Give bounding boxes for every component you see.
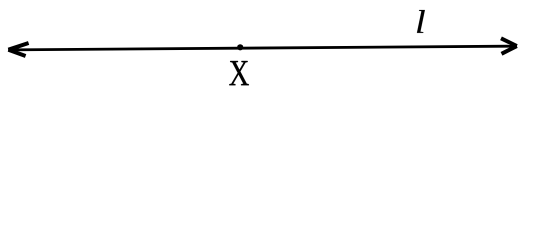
node arrowhead-left [8,43,28,56]
node X (point dot) [237,44,243,50]
node arrowhead-right [501,38,517,54]
node label X [229,61,248,85]
node label l (line name) [417,10,425,33]
wire [8,46,517,50]
